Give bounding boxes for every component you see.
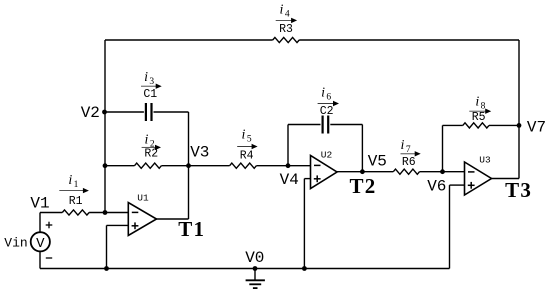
svg-text:V0: V0	[245, 249, 264, 267]
svg-text:6: 6	[326, 92, 331, 102]
svg-text:i: i	[145, 132, 149, 147]
svg-text:8: 8	[481, 101, 486, 111]
svg-text:i: i	[68, 173, 72, 188]
svg-text:C2: C2	[320, 105, 334, 118]
svg-text:i: i	[401, 138, 405, 153]
svg-text:V4: V4	[280, 171, 299, 189]
svg-text:V7: V7	[527, 119, 546, 137]
svg-text:V1: V1	[30, 194, 49, 212]
svg-text:V: V	[36, 236, 45, 252]
svg-text:U3: U3	[479, 155, 491, 166]
svg-text:T1: T1	[178, 217, 205, 241]
svg-text:R1: R1	[69, 195, 83, 208]
svg-text:i: i	[242, 127, 246, 142]
svg-text:i: i	[280, 2, 284, 17]
svg-text:U1: U1	[137, 192, 149, 203]
svg-text:T3: T3	[505, 178, 532, 202]
svg-text:R5: R5	[472, 111, 486, 124]
svg-text:V6: V6	[427, 178, 446, 196]
svg-text:C1: C1	[143, 88, 157, 101]
svg-text:7: 7	[406, 145, 411, 155]
svg-text:R6: R6	[402, 156, 416, 169]
svg-text:5: 5	[247, 134, 252, 144]
svg-text:Vin: Vin	[4, 236, 27, 251]
svg-text:V2: V2	[81, 104, 100, 122]
svg-text:R4: R4	[240, 150, 254, 163]
svg-text:R2: R2	[144, 148, 158, 161]
svg-text:4: 4	[285, 9, 290, 19]
svg-text:U2: U2	[321, 150, 333, 161]
svg-text:2: 2	[150, 139, 155, 149]
svg-text:i: i	[144, 70, 148, 85]
svg-text:1: 1	[74, 180, 79, 190]
svg-text:V5: V5	[368, 153, 387, 171]
svg-text:i: i	[321, 85, 325, 100]
svg-text:V3: V3	[190, 143, 209, 161]
svg-text:T2: T2	[350, 174, 377, 198]
svg-text:3: 3	[149, 77, 154, 87]
svg-text:i: i	[475, 94, 479, 109]
svg-text:R3: R3	[279, 23, 293, 36]
